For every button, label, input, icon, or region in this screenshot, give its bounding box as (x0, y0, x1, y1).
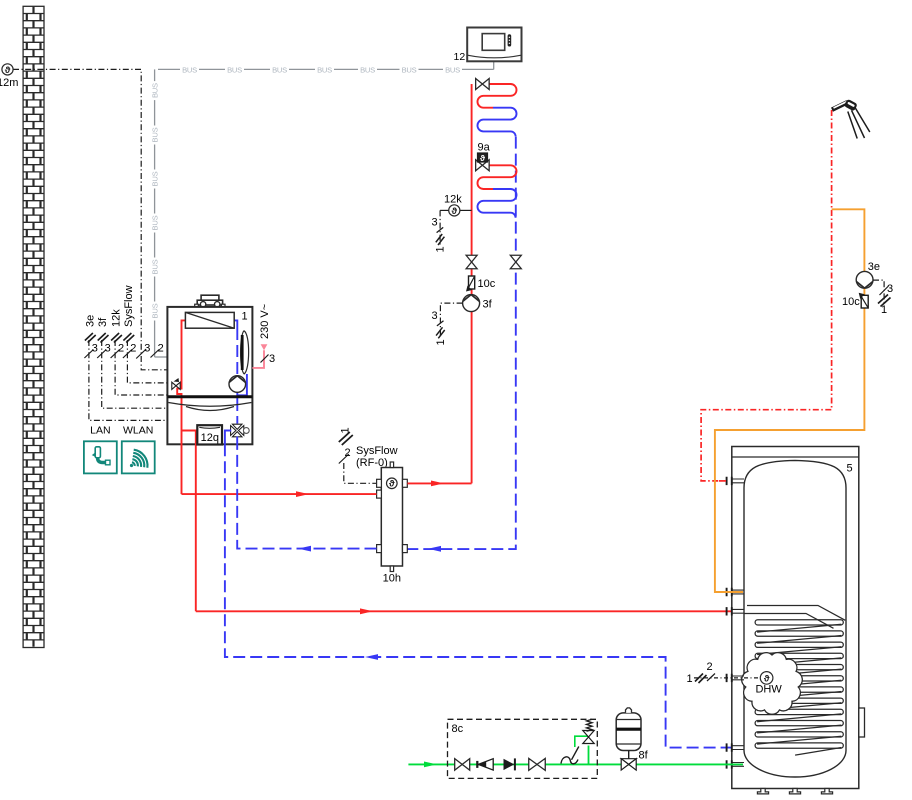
svg-text:3f: 3f (483, 299, 493, 311)
svg-text:9a: 9a (478, 142, 491, 154)
svg-text:10c: 10c (842, 296, 860, 308)
svg-text:230 V~: 230 V~ (259, 304, 271, 339)
svg-text:1: 1 (242, 311, 248, 323)
svg-text:2: 2 (345, 447, 351, 459)
svg-text:ϑ: ϑ (452, 206, 458, 217)
svg-text:LAN: LAN (90, 425, 110, 437)
svg-text:BUS: BUS (182, 65, 197, 74)
svg-text:2: 2 (707, 661, 713, 673)
svg-text:1: 1 (687, 673, 693, 685)
svg-text:8f: 8f (639, 750, 649, 762)
svg-text:2: 2 (118, 343, 124, 355)
svg-text:BUS: BUS (151, 83, 160, 98)
svg-text:1: 1 (339, 427, 351, 433)
svg-text:12k: 12k (111, 309, 123, 327)
svg-text:BUS: BUS (151, 215, 160, 230)
svg-text:BUS: BUS (151, 171, 160, 186)
svg-text:BUS: BUS (151, 303, 160, 318)
svg-text:12q: 12q (201, 432, 219, 444)
svg-text:BUS: BUS (445, 65, 460, 74)
svg-text:BUS: BUS (360, 65, 375, 74)
svg-text:WLAN: WLAN (123, 425, 153, 437)
svg-text:5: 5 (847, 463, 853, 475)
svg-text:BUS: BUS (227, 65, 242, 74)
svg-text:DHW: DHW (755, 684, 782, 696)
svg-text:SysFlow: SysFlow (356, 445, 398, 457)
svg-text:BUS: BUS (151, 259, 160, 274)
svg-text:12m: 12m (0, 77, 18, 89)
svg-text:2: 2 (130, 343, 136, 355)
svg-text:3: 3 (887, 283, 893, 295)
svg-text:3e: 3e (868, 261, 880, 273)
svg-text:3: 3 (432, 217, 438, 229)
svg-text:BUS: BUS (402, 65, 417, 74)
svg-text:10h: 10h (383, 573, 401, 585)
svg-text:2: 2 (158, 343, 164, 355)
svg-text:3f: 3f (97, 317, 109, 327)
svg-text:12: 12 (454, 51, 466, 63)
svg-text:BUS: BUS (151, 127, 160, 142)
svg-text:3: 3 (105, 343, 111, 355)
svg-text:10c: 10c (478, 278, 496, 290)
svg-text:ϑ: ϑ (480, 153, 485, 163)
svg-text:3: 3 (432, 310, 438, 322)
svg-text:ϑ: ϑ (389, 479, 395, 490)
svg-text:3: 3 (269, 353, 275, 365)
svg-text:3e: 3e (84, 315, 96, 327)
svg-text:1: 1 (881, 304, 887, 316)
svg-text:8c: 8c (452, 723, 464, 735)
svg-text:BUS: BUS (317, 65, 332, 74)
svg-text:SysFlow: SysFlow (123, 285, 135, 327)
svg-text:1: 1 (435, 246, 447, 252)
svg-text:1: 1 (435, 339, 447, 345)
svg-text:BUS: BUS (272, 65, 287, 74)
svg-text:12k: 12k (444, 194, 462, 206)
svg-text:3: 3 (92, 343, 98, 355)
svg-text:3: 3 (144, 343, 150, 355)
svg-text:ϑ: ϑ (5, 65, 11, 76)
